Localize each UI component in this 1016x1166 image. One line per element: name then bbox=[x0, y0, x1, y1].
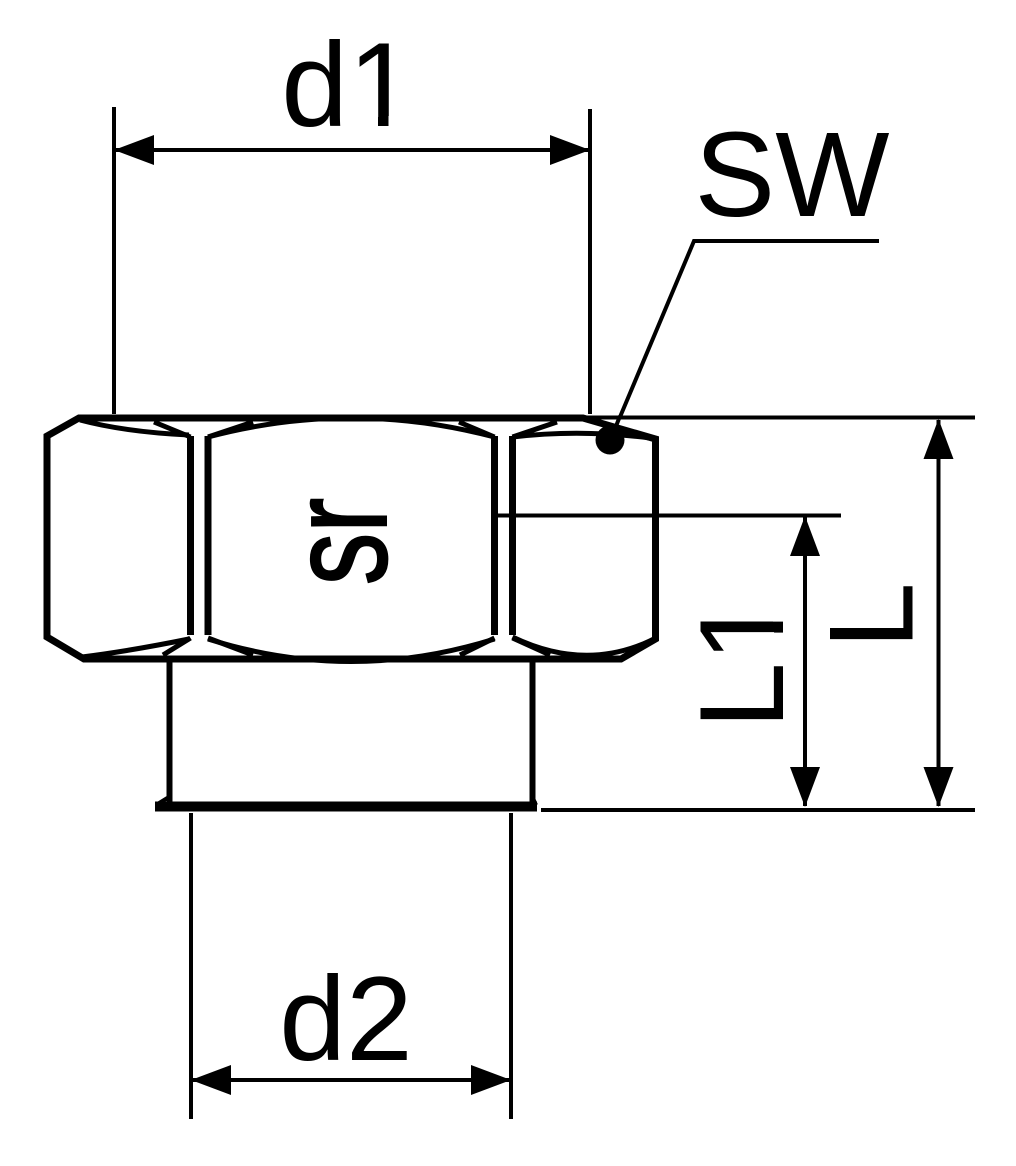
left face bottom chamfer arc bbox=[82, 639, 189, 657]
svg-text:d1: d1 bbox=[281, 18, 414, 152]
masks hiding Liberation digit-1 foot serif (target font has none) bbox=[773, 601, 785, 622]
hex nut body outline bbox=[47, 418, 656, 659]
left facet edge lines bbox=[187, 436, 194, 635]
L bottom arrowhead bbox=[924, 767, 954, 807]
d1 left extension line bbox=[112, 107, 116, 414]
d2 right extension line bbox=[509, 813, 513, 1119]
right face bottom chamfer arc bbox=[513, 637, 653, 655]
d1 dimension line bbox=[114, 148, 590, 152]
bottom chamfer fan lines bbox=[163, 638, 550, 655]
d2 dimension line bbox=[191, 1078, 511, 1082]
d2 left extension line bbox=[189, 813, 193, 1119]
L top extension line bbox=[583, 416, 975, 420]
masks hiding digit-1 foot serif bbox=[356, 116, 379, 128]
L1 top arrowhead bbox=[790, 516, 820, 556]
threaded stub left edge bbox=[167, 662, 173, 802]
L1 bottom arrowhead bbox=[790, 767, 820, 807]
threaded stub right edge bbox=[530, 662, 536, 802]
SW leader tail segment bbox=[611, 416, 620, 439]
SW leader dot bbox=[596, 426, 625, 455]
d1 right extension line bbox=[588, 109, 592, 414]
d1 left arrowhead bbox=[114, 135, 154, 165]
right face top chamfer arc bbox=[513, 433, 651, 438]
L dimension line bbox=[937, 420, 941, 806]
svg-text:d2: d2 bbox=[279, 952, 412, 1086]
L top arrowhead bbox=[924, 419, 954, 459]
left face top chamfer arc bbox=[80, 420, 189, 435]
L1 top extension line bbox=[494, 514, 841, 518]
top chamfer fan lines bbox=[154, 422, 557, 437]
L / L1 bottom extension line bbox=[541, 808, 975, 812]
svg-text:L1: L1 bbox=[675, 596, 809, 729]
right facet edge lines bbox=[491, 436, 498, 635]
d1 right arrowhead bbox=[550, 135, 590, 165]
stub bottom-right chamfer bbox=[533, 797, 537, 805]
svg-text:SW: SW bbox=[695, 106, 890, 242]
d2 right arrowhead bbox=[471, 1065, 511, 1095]
svg-text:L: L bbox=[805, 582, 939, 649]
L1 dimension line bbox=[803, 517, 807, 806]
stub bottom-left chamfer bbox=[156, 797, 169, 805]
central face top chamfer arc bbox=[208, 418, 495, 437]
d2 left arrowhead bbox=[191, 1065, 231, 1095]
threaded stub bottom edge bbox=[155, 802, 537, 812]
svg-text:sr: sr bbox=[260, 498, 416, 585]
central face bottom chamfer arc bbox=[208, 639, 495, 662]
SW leader line bbox=[620, 241, 879, 417]
